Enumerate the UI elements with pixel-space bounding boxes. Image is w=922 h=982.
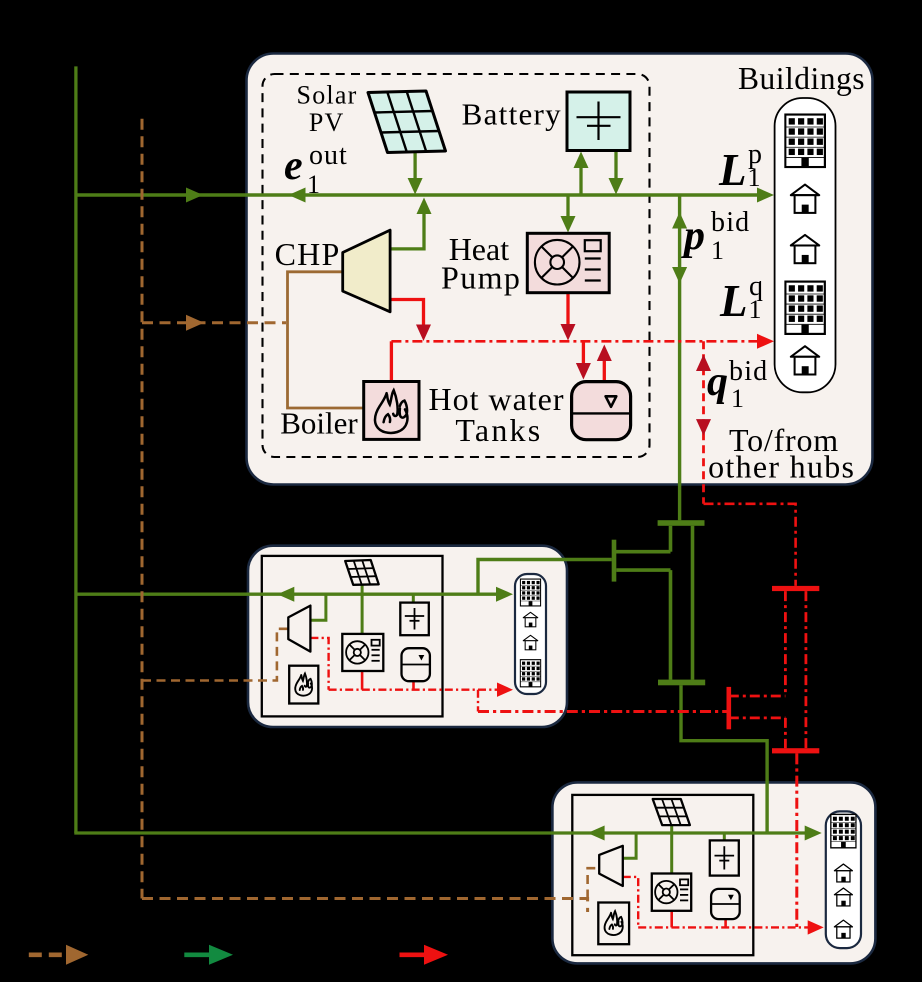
wire: red pair left vertical upper bbox=[784, 591, 787, 696]
boiler 1 bbox=[364, 382, 419, 440]
svg-text:1: 1 bbox=[731, 384, 744, 413]
wire: hub 3 heat bus (dash-dot) bbox=[638, 926, 810, 928]
wire: solar PV 3 drop through bus to heat pump 3 bbox=[670, 825, 673, 873]
hub 1 dashed converter box bbox=[263, 74, 650, 457]
wire: tank 2 heat drop bbox=[412, 681, 415, 690]
wire: red pair left vertical lower bbox=[784, 718, 787, 748]
battery 3 bbox=[710, 840, 739, 875]
wire: hub 2 heat branch down bbox=[477, 690, 479, 712]
CHP 1 turbine bbox=[343, 230, 390, 312]
svg-text:Boiler: Boiler bbox=[280, 406, 358, 441]
svg-text:other hubs: other hubs bbox=[708, 449, 855, 485]
wire: CHP 3 electric output bbox=[623, 833, 636, 858]
svg-text:Battery: Battery bbox=[462, 97, 562, 132]
wire: red bar to hub 3 (down, dash-dot) bbox=[795, 753, 798, 927]
CHP 3 turbine bbox=[599, 846, 623, 886]
hub 1 outer box bbox=[247, 54, 873, 485]
boiler 2 bbox=[289, 666, 318, 704]
house icon 1e bbox=[791, 346, 819, 374]
hub 2 outer box bbox=[248, 546, 567, 727]
wire: bus to heat pump 1 bbox=[566, 195, 569, 220]
wire: gas riser to CHP 3 bbox=[588, 868, 600, 898]
wire: green pair left vertical lower bbox=[669, 570, 673, 680]
svg-text:1: 1 bbox=[749, 295, 762, 324]
arrow: tank 1 into heat bus bbox=[597, 345, 612, 362]
CHP 2 turbine bbox=[288, 606, 310, 652]
arrow: battery 1 into bus bbox=[609, 178, 624, 195]
wire: main electricity feeder vertical (left) bbox=[74, 66, 77, 833]
house icon 3b bbox=[834, 864, 852, 882]
svg-text:CHP: CHP bbox=[275, 236, 341, 272]
svg-text:q: q bbox=[707, 359, 728, 405]
wire: gas pipe CHP 1 to boiler 1 (solid brown) bbox=[288, 272, 364, 408]
wire: gas branch to hub 3 bbox=[142, 899, 588, 913]
wire: heat pump 1 heat output bbox=[566, 293, 569, 328]
svg-text:bid: bid bbox=[729, 356, 768, 387]
building icon 2d bbox=[520, 660, 540, 687]
svg-text:e: e bbox=[284, 143, 303, 189]
hot water tank 1 bbox=[572, 382, 631, 440]
wire: CHP 1 heat output bbox=[390, 300, 423, 330]
heat pump 2 bbox=[342, 634, 383, 671]
wire: green jog upper to hub2 terminal bbox=[612, 550, 671, 554]
wire: gas branch to hub 1 bbox=[142, 321, 286, 324]
wire: CHP 1 electric output bbox=[390, 210, 424, 249]
svg-text:L: L bbox=[718, 145, 747, 195]
house icon 2c bbox=[523, 635, 538, 650]
wire: heat bus hub 1 (dash-dot) bbox=[391, 340, 759, 343]
arrow: into heat pump 1 bbox=[561, 216, 576, 233]
wire: solar PV 1 drop to bus bbox=[413, 152, 416, 182]
wire: red pair right vertical bbox=[805, 591, 808, 748]
wire: hub 2 bus out (up and right) bbox=[478, 560, 566, 595]
building icon 3a bbox=[831, 814, 856, 847]
arrow: hub 2 heat into buildings bbox=[497, 683, 513, 697]
house icon 3c bbox=[834, 888, 852, 906]
wire: electricity feeder to hub 2 bbox=[76, 593, 500, 596]
wire: green pair right vertical bbox=[691, 526, 695, 680]
wire: hub 2 heat out to terminal (dash-dot) bbox=[478, 710, 727, 713]
hub 2 converter box bbox=[262, 556, 443, 717]
arrow: gas into hub 1 bbox=[186, 315, 204, 331]
label: p1bid bbox=[681, 207, 750, 265]
battery 2 bbox=[400, 603, 429, 636]
wire: q1bid jog to red bar (dash-dot) bbox=[704, 504, 796, 586]
svg-text:Pump: Pump bbox=[441, 260, 521, 296]
svg-text:out: out bbox=[309, 140, 348, 171]
solar PV panel hub 2 bbox=[345, 560, 379, 585]
arrow: p1bid down bbox=[672, 267, 687, 284]
node: hub2 heat terminal bar bbox=[727, 687, 732, 729]
buildings box hub 2 bbox=[515, 574, 546, 694]
wire: hub 2 bus out to terminal bbox=[566, 558, 612, 561]
wire: tank 1 charge bbox=[582, 341, 585, 367]
building icon 1d bbox=[785, 282, 824, 334]
node: green bus bar bottom cap bbox=[658, 680, 705, 686]
house icon 3d bbox=[834, 920, 852, 938]
house icon 2b bbox=[523, 612, 538, 627]
svg-text:1: 1 bbox=[711, 236, 724, 265]
wire: gas branch to hub 2 bbox=[142, 629, 288, 681]
wire: green pair left vertical upper bbox=[669, 526, 673, 552]
arrow: hub 1 export e1out (left pointing) bbox=[289, 188, 306, 203]
wire: p1bid line hub1 to green bus bar bbox=[678, 195, 681, 520]
svg-text:L: L bbox=[719, 276, 748, 326]
svg-text:PV: PV bbox=[309, 108, 345, 137]
wire: q1bid dashed vertical bbox=[702, 341, 705, 504]
wire: tank 3 heat drop bbox=[724, 919, 727, 927]
arrow: hub 3 export left bbox=[588, 826, 605, 841]
arrow: p1bid up bbox=[672, 212, 687, 229]
wire: CHP 2 electric output bbox=[310, 594, 326, 620]
wire: battery 2 riser bbox=[412, 594, 415, 602]
wire: battery 1 charge line bbox=[579, 164, 582, 195]
legend: electricity arrow bbox=[184, 952, 211, 957]
arrow: hub 2 export left bbox=[277, 587, 294, 602]
arrow: q1bid up bbox=[696, 355, 711, 372]
arrow: CHP 1 into bus bbox=[417, 198, 432, 215]
svg-text:1: 1 bbox=[748, 163, 761, 192]
svg-text:Tanks: Tanks bbox=[455, 412, 542, 448]
svg-text:bid: bid bbox=[711, 207, 750, 238]
arrow: heat load into buildings L1q bbox=[757, 334, 774, 349]
arrow: feeder into hub 1 bbox=[186, 188, 203, 203]
node: green bus bar top cap bbox=[658, 520, 705, 526]
wire: gas feeder vertical (dashed brown) bbox=[141, 119, 144, 899]
label: L1q bbox=[719, 271, 763, 326]
heat pump 3 bbox=[652, 874, 691, 911]
wire: heat pump 2 heat drop bbox=[361, 671, 364, 690]
legend: heat arrow bbox=[400, 952, 427, 957]
wire: electricity feeder to hub 3 (bottom horizontal) bbox=[74, 831, 809, 834]
label: e1out bbox=[284, 140, 348, 199]
wire: battery 3 riser bbox=[723, 833, 726, 840]
wire: heat pump 3 heat drop bbox=[670, 911, 673, 928]
wire: CHP 2 heat output (dash-dot) bbox=[310, 638, 328, 690]
arrow: heat pump 1 into heat bus bbox=[561, 324, 576, 341]
svg-text:Buildings: Buildings bbox=[738, 61, 865, 96]
wire: CHP 3 heat output (dash-dot) bbox=[623, 877, 638, 928]
buildings box hub 3 bbox=[826, 811, 861, 948]
label: q1bid bbox=[707, 356, 768, 413]
hub 3 outer box bbox=[552, 782, 875, 963]
arrow: q1bid down bbox=[696, 419, 711, 436]
svg-text:p: p bbox=[681, 213, 705, 259]
house icon 1b bbox=[791, 185, 819, 213]
wire: electricity feeder to hub 1 bbox=[76, 193, 761, 196]
wire: red jog lower from terminal bbox=[729, 717, 786, 720]
solar PV panel hub 1 bbox=[368, 91, 446, 153]
arrow: CHP 1 heat into heat bus bbox=[416, 325, 431, 342]
solar PV panel hub 3 bbox=[653, 799, 690, 825]
wire: hub 2 heat bus (dash-dot) bbox=[329, 689, 500, 691]
arrow: hub 3 bus into buildings bbox=[805, 826, 822, 841]
wire: green jog lower from terminal bbox=[616, 568, 670, 572]
wire: solar PV 2 drop through bus to heat pump 2 bbox=[361, 585, 364, 634]
svg-text:1: 1 bbox=[307, 170, 320, 199]
arrow: hub 3 heat into buildings bbox=[808, 920, 824, 934]
hub 3 converter box bbox=[572, 795, 753, 955]
wire: heat bus riser to boiler 1 bbox=[390, 341, 393, 381]
svg-text:Solar: Solar bbox=[297, 80, 358, 109]
buildings box hub 1 bbox=[775, 98, 836, 392]
wire: green bus bar to hub 3 (down) bbox=[681, 685, 767, 833]
arrow: hub 1 bus into buildings bbox=[757, 188, 774, 203]
wire: tank 1 discharge bbox=[603, 358, 606, 382]
wire: red jog upper to hub2 heat terminal bbox=[729, 695, 786, 698]
wire: battery 1 discharge line bbox=[614, 151, 617, 183]
arrow: into battery 1 bbox=[574, 152, 589, 169]
legend: gas arrow bbox=[29, 952, 67, 957]
node: hub2 electric terminal bar bbox=[612, 540, 617, 582]
building icon 2a bbox=[520, 579, 540, 606]
arrow: solar PV 1 into bus bbox=[408, 178, 423, 195]
building icon 1a bbox=[785, 115, 825, 168]
hot water tank 2 bbox=[402, 648, 430, 681]
arrow: into tank 1 bbox=[576, 363, 591, 380]
node: red heat bar top cap bbox=[772, 586, 819, 591]
hot water tank 3 bbox=[711, 889, 740, 919]
house icon 1c bbox=[791, 235, 819, 263]
node: red heat bar bottom cap bbox=[772, 748, 819, 753]
heat pump 1 bbox=[527, 233, 609, 292]
arrow: hub 2 bus into buildings bbox=[496, 587, 513, 602]
label: L1p bbox=[718, 139, 762, 195]
battery 1 bbox=[567, 92, 630, 151]
boiler 3 bbox=[598, 903, 629, 945]
